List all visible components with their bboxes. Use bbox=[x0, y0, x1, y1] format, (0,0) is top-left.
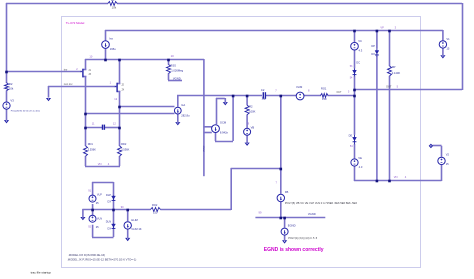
svg-text:.MODEL DX D(IS=800.0E-16): .MODEL DX D(IS=800.0E-16) bbox=[68, 253, 105, 257]
svg-text:100K: 100K bbox=[249, 109, 255, 113]
svg-text:RD1: RD1 bbox=[88, 142, 94, 146]
svg-text:3.536K: 3.536K bbox=[121, 148, 129, 152]
svg-text:1.026Meg: 1.026Meg bbox=[171, 69, 183, 73]
svg-text:OUT: OUT bbox=[337, 92, 342, 94]
svg-text:DLP: DLP bbox=[106, 193, 111, 197]
svg-text:.MODEL JX PJF(IS=15.0E-12 BETA: .MODEL JX PJF(IS=15.0E-12 BETA=270.1E-6 … bbox=[67, 258, 136, 262]
svg-text:DX: DX bbox=[108, 227, 112, 230]
svg-text:V1: V1 bbox=[446, 37, 450, 41]
svg-text:JX: JX bbox=[88, 73, 91, 76]
svg-text:DX: DX bbox=[371, 52, 375, 56]
svg-text:15: 15 bbox=[446, 162, 449, 166]
svg-text:3.536K: 3.536K bbox=[88, 148, 96, 152]
svg-text:V2: V2 bbox=[446, 152, 450, 156]
svg-text:8.942n: 8.942n bbox=[220, 131, 229, 135]
svg-text:282.8u: 282.8u bbox=[181, 113, 190, 117]
svg-text:DP: DP bbox=[371, 44, 375, 48]
svg-text:VN: VN bbox=[98, 162, 102, 166]
svg-text:TL-072 Model: TL-072 Model bbox=[66, 21, 85, 25]
svg-text:4.3: 4.3 bbox=[359, 48, 363, 52]
svg-text:EGND is shown correctly: EGND is shown correctly bbox=[264, 247, 324, 253]
svg-text:C2: C2 bbox=[261, 88, 265, 92]
svg-text:non inv: non inv bbox=[64, 82, 73, 86]
svg-text:RSS: RSS bbox=[170, 64, 176, 68]
svg-text:10: 10 bbox=[171, 54, 175, 58]
svg-text:EGND: EGND bbox=[288, 223, 296, 227]
svg-text:VB: VB bbox=[251, 125, 255, 129]
svg-text:HLIM: HLIM bbox=[131, 218, 138, 222]
svg-text:DLN: DLN bbox=[106, 220, 111, 224]
svg-text:V3: V3 bbox=[10, 99, 14, 103]
svg-text:DE: DE bbox=[349, 134, 353, 138]
svg-text:RP: RP bbox=[392, 65, 396, 69]
svg-text:VLIM: VLIM bbox=[296, 85, 303, 89]
svg-text:10k: 10k bbox=[112, 6, 117, 10]
svg-text:PUL(-80 80 10 5m 2m 1u 4m): PUL(-80 80 10 5m 2m 1u 4m) bbox=[11, 110, 40, 112]
svg-text:VLN: VLN bbox=[97, 217, 102, 221]
svg-text:VLP: VLP bbox=[97, 193, 102, 197]
svg-text:RO1: RO1 bbox=[321, 87, 327, 91]
svg-text:VC: VC bbox=[358, 39, 362, 43]
svg-text:POLY(5) VB VC VE VLP VLN 0 4.7: POLY(5) VB VC VE VLP VLN 0 4.715E6 -5E6 … bbox=[285, 201, 358, 205]
svg-text:trac file startup: trac file startup bbox=[31, 271, 52, 275]
svg-text:DC: DC bbox=[356, 61, 360, 64]
svg-text:15: 15 bbox=[446, 47, 449, 51]
svg-text:FB: FB bbox=[285, 190, 289, 194]
svg-text:VGND: VGND bbox=[308, 212, 316, 216]
svg-text:150: 150 bbox=[322, 97, 327, 101]
svg-text:R2: R2 bbox=[249, 104, 253, 108]
svg-text:VGND: VGND bbox=[173, 77, 181, 81]
svg-text:10k: 10k bbox=[9, 87, 14, 91]
svg-text:15p: 15p bbox=[262, 96, 267, 100]
svg-text:R2: R2 bbox=[9, 82, 13, 86]
svg-text:POLY(2) (3,0) (4,0) 0 .5 .5: POLY(2) (3,0) (4,0) 0 .5 .5 bbox=[288, 237, 317, 240]
svg-text:R1: R1 bbox=[111, 0, 115, 2]
svg-text:JX: JX bbox=[121, 88, 124, 91]
svg-text:2.143K: 2.143K bbox=[392, 71, 401, 75]
svg-text:OUT: OUT bbox=[386, 84, 392, 88]
svg-text:195u: 195u bbox=[110, 47, 116, 51]
svg-text:4.3: 4.3 bbox=[359, 165, 363, 169]
svg-text:VN: VN bbox=[394, 175, 398, 179]
svg-text:GCM: GCM bbox=[220, 121, 227, 125]
svg-text:VGND: VGND bbox=[204, 145, 206, 152]
svg-text:150: 150 bbox=[153, 211, 158, 215]
svg-text:RD2: RD2 bbox=[121, 142, 127, 146]
svg-text:DX: DX bbox=[108, 200, 112, 203]
svg-text:RO2: RO2 bbox=[152, 203, 158, 207]
svg-text:VE: VE bbox=[358, 156, 362, 160]
svg-text:VLIM 1K: VLIM 1K bbox=[131, 227, 142, 231]
svg-text:VP: VP bbox=[380, 25, 384, 29]
svg-text:GA: GA bbox=[181, 103, 185, 107]
